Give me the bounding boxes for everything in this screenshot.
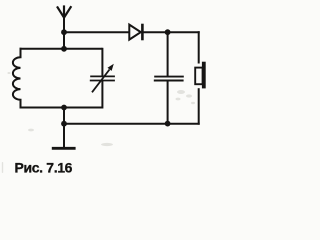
capacitor C2 bottom lead (167, 81, 169, 124)
wire antenna stem (63, 16, 65, 49)
node ground rail junction (61, 121, 67, 127)
variable capacitor C1 plates (90, 76, 115, 80)
wire top to diode (64, 31, 130, 33)
inductor L1 (13, 48, 21, 109)
node tank top junction (61, 46, 67, 52)
diode VD1 (129, 24, 142, 41)
ground (52, 147, 76, 150)
antenna WA1 (57, 5, 71, 17)
node antenna/diode junction (61, 29, 67, 35)
node tank bottom junction (61, 105, 67, 111)
variable capacitor C1 arrow (92, 64, 114, 93)
svg-text:Рис. 7.16: Рис. 7.16 (15, 160, 73, 176)
node capacitor top junction (165, 29, 171, 35)
scan smudges (decorative) (2, 72, 195, 173)
variable capacitor C1 bottom lead (101, 81, 103, 109)
wire bottom rail (64, 123, 200, 125)
capacitor C2 top lead (167, 32, 169, 76)
wire tank bottom rail (20, 107, 103, 109)
capacitor C2 (154, 77, 184, 81)
variable capacitor C1 top lead (101, 48, 103, 77)
wire earphone to bottom rail (198, 88, 200, 125)
wire ground branch (63, 108, 65, 148)
earphone BF1 (195, 62, 206, 89)
node capacitor bottom junction (165, 121, 171, 127)
wire tank top rail (20, 48, 103, 50)
wire right vertical down to earphone (198, 31, 200, 63)
wire diode to top-right corner (143, 31, 200, 33)
